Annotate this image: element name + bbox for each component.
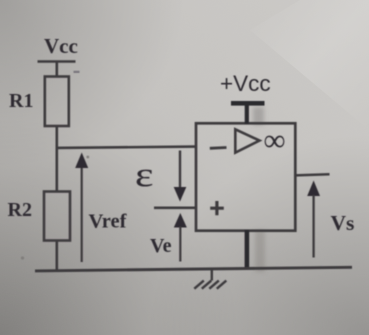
power rail +Vcc (op-amp supply bar) (231, 101, 265, 124)
arrow Vref (node A voltage) (75, 153, 88, 263)
wire op-amp noninverting input (154, 207, 196, 210)
wire R1 to node A to R2 (55, 126, 58, 192)
resistor R1 (45, 77, 69, 127)
op-amp noninverting pin mark (plus) (210, 201, 224, 215)
svg-text:R1: R1 (9, 90, 33, 112)
power rail Vcc (top-left supply bar) (38, 62, 76, 78)
wire R2 to ground rail (55, 241, 58, 271)
svg-text:∞: ∞ (264, 123, 286, 158)
op-amp inverting pin mark (minus) (210, 146, 227, 150)
svg-text:Vs: Vs (331, 211, 355, 235)
op-amp U1 body (196, 123, 295, 230)
svg-text:Ve: Ve (150, 235, 172, 257)
op-amp gain triangle (235, 129, 259, 152)
svg-text:Vcc: Vcc (44, 34, 78, 58)
arrow epsilon (pointing down) (174, 151, 187, 202)
wire node A to op-amp inverting input (56, 147, 197, 148)
svg-text:R2: R2 (8, 199, 32, 221)
arrow Vs (output voltage) (307, 181, 320, 258)
svg-text:+Vcc: +Vcc (220, 71, 271, 96)
wire op-amp to ground rail (thick) (245, 230, 250, 269)
resistor R2 (44, 192, 70, 241)
arrow Ve (noninverting input voltage) (174, 213, 187, 262)
svg-text:Vref: Vref (89, 211, 128, 233)
wire op-amp output (295, 174, 329, 175)
ground symbol (194, 270, 226, 289)
svg-text:ε: ε (135, 155, 154, 194)
ground rail (35, 267, 352, 271)
